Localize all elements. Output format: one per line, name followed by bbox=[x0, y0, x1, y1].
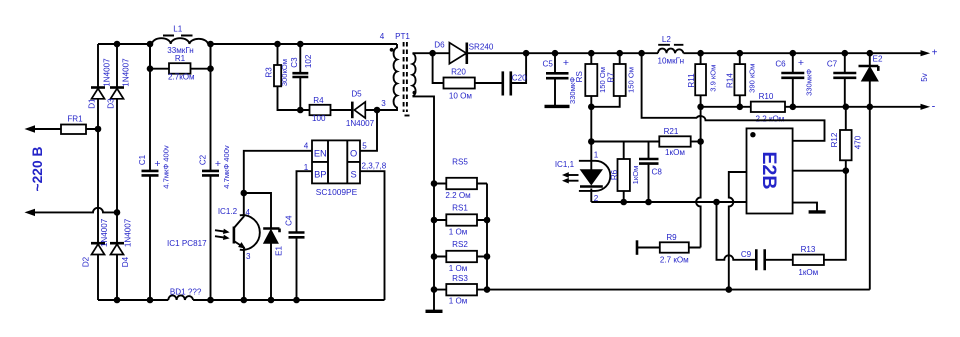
junction C3 top bbox=[297, 41, 304, 48]
capacitor C9 bbox=[741, 249, 793, 270]
wire minus rail to bottom rail bbox=[869, 107, 871, 290]
junction C3-R4 node bbox=[297, 107, 304, 114]
svg-text:2.2 кОм: 2.2 кОм bbox=[755, 114, 784, 123]
junction bottom rail C4 bbox=[293, 297, 300, 304]
svg-text:5: 5 bbox=[362, 142, 367, 151]
svg-text:1N4007: 1N4007 bbox=[122, 58, 131, 87]
svg-text:C7: C7 bbox=[827, 60, 838, 69]
resistor RS3 1 Ом bbox=[446, 274, 477, 306]
svg-text:10 Ом: 10 Ом bbox=[449, 92, 472, 101]
svg-text:C4: C4 bbox=[284, 215, 293, 226]
junction D6 anode snubber bbox=[429, 50, 436, 57]
junction minus rail C7/R12 bbox=[843, 104, 850, 111]
svg-text:D4: D4 bbox=[121, 256, 130, 267]
wire bottom rail primary bbox=[98, 299, 385, 301]
svg-text:IC1.2: IC1.2 bbox=[218, 207, 238, 216]
resistor RS2 1 Ом bbox=[434, 240, 487, 273]
junction RS3 left bbox=[431, 286, 438, 293]
svg-text:R13: R13 bbox=[801, 245, 816, 254]
wire BP pin to C4 bbox=[297, 171, 313, 232]
inductor L2 10мкГн bbox=[658, 35, 685, 66]
junction R11 top bbox=[697, 50, 704, 57]
resistor RS1 1 Ом bbox=[434, 204, 487, 237]
diode D3 1N4007 bbox=[106, 44, 130, 212]
svg-text:RS3: RS3 bbox=[452, 274, 468, 283]
junction R3 top bbox=[274, 41, 281, 48]
svg-text:RS: RS bbox=[575, 70, 584, 82]
wire node C bbox=[591, 201, 746, 203]
wire O pin to D5 node bbox=[360, 110, 377, 151]
svg-text:330мкФ: 330мкФ bbox=[804, 69, 813, 96]
junction L2 tap bbox=[638, 50, 645, 57]
junction minus rail R11 bbox=[697, 104, 704, 111]
diode D5 1N4007 bbox=[346, 90, 397, 129]
svg-text:300кОм: 300кОм bbox=[280, 59, 289, 86]
optocoupler transistor IC1.2 bbox=[167, 193, 260, 300]
svg-text:E1: E1 bbox=[275, 245, 284, 255]
svg-text:SC1009PE: SC1009PE bbox=[316, 187, 358, 197]
svg-text:390 кОм: 390 кОм bbox=[748, 64, 757, 93]
svg-text:1N4007: 1N4007 bbox=[346, 119, 375, 128]
junction R21 right bbox=[697, 138, 704, 145]
svg-text:L1: L1 bbox=[173, 25, 183, 34]
svg-text:4: 4 bbox=[304, 142, 309, 151]
diode D6 SR240 bbox=[434, 41, 658, 65]
junction minus rail R14 bbox=[737, 104, 744, 111]
svg-text:E2B: E2B bbox=[758, 152, 780, 190]
svg-text:1 Ом: 1 Ом bbox=[449, 264, 468, 273]
svg-text:4.7мкФ 400v: 4.7мкФ 400v bbox=[222, 145, 231, 189]
junction bottom rail C2 bbox=[207, 297, 214, 304]
junction node B (LED anode) bbox=[588, 138, 595, 145]
zener E2 bbox=[859, 53, 883, 107]
resistor R1 2.7кОм bbox=[150, 44, 211, 82]
capacitor C4 bbox=[284, 215, 304, 300]
svg-text:R7: R7 bbox=[607, 72, 616, 83]
svg-text:R20: R20 bbox=[451, 68, 466, 77]
resistor R14 390 кОм bbox=[725, 53, 756, 107]
resistor R9 2.7 кОм bbox=[637, 233, 701, 265]
IC E2B ground symbol bbox=[793, 203, 826, 212]
resistor R13 1кОм bbox=[793, 245, 824, 277]
wire RS node to LED anode bbox=[590, 107, 592, 150]
junction E2 bottom / minus rail bbox=[867, 104, 874, 111]
junction node C R6 bbox=[620, 199, 627, 206]
diode D2 1N4007 bbox=[82, 129, 109, 300]
wire top rail left bbox=[98, 43, 152, 45]
svg-text:1кОм: 1кОм bbox=[798, 268, 818, 277]
svg-text:1N4007: 1N4007 bbox=[124, 218, 133, 247]
junction RS2 left bbox=[431, 253, 438, 260]
svg-text:1: 1 bbox=[594, 151, 599, 160]
svg-text:4: 4 bbox=[380, 32, 385, 41]
svg-text:3.9 кОм: 3.9 кОм bbox=[709, 65, 718, 92]
svg-text:C5: C5 bbox=[543, 60, 554, 69]
wire node B to R21 bbox=[591, 141, 659, 143]
svg-text:D1: D1 bbox=[87, 98, 96, 109]
junction R1 left bbox=[147, 65, 154, 72]
inductor L1 33мкГн bbox=[152, 25, 208, 56]
resistor RS5 2.2 Ом bbox=[434, 158, 487, 201]
svg-text:RS5: RS5 bbox=[452, 158, 468, 167]
svg-text:C1: C1 bbox=[138, 154, 147, 165]
fuse FR1 bbox=[61, 115, 86, 135]
capacitor C3 102 bbox=[290, 44, 313, 110]
junction R12 bottom node bbox=[843, 167, 850, 174]
svg-text:1кОм: 1кОм bbox=[665, 148, 685, 157]
junction collector node bbox=[241, 190, 248, 197]
svg-text:C9: C9 bbox=[741, 250, 752, 259]
capacitor C2 4.7мкФ 400v bbox=[198, 44, 230, 300]
svg-text:+: + bbox=[563, 57, 569, 69]
junction C2 top bbox=[207, 41, 214, 48]
junction RS1 right bbox=[484, 217, 491, 224]
svg-text:470: 470 bbox=[854, 135, 863, 149]
svg-text:D5: D5 bbox=[351, 90, 362, 99]
capacitor C5 330мкФ bbox=[543, 53, 578, 105]
svg-text:100: 100 bbox=[312, 114, 326, 123]
svg-text:D3: D3 bbox=[106, 98, 115, 109]
junction RS3 right bbox=[484, 286, 491, 293]
svg-text:FR1: FR1 bbox=[67, 115, 83, 124]
svg-text:~220 В: ~220 В bbox=[30, 147, 45, 192]
svg-text:R1: R1 bbox=[175, 54, 186, 63]
capacitor C6 330мкФ bbox=[775, 53, 813, 107]
svg-text:R21: R21 bbox=[664, 127, 679, 136]
wire node A down to R9 (with hop) bbox=[696, 107, 701, 248]
svg-text:5v: 5v bbox=[920, 72, 929, 82]
junction bottom rail D4 bbox=[114, 297, 121, 304]
wire C9 to node C (with hop) bbox=[717, 202, 757, 260]
junction RS2 right bbox=[484, 253, 491, 260]
svg-text:1N4007: 1N4007 bbox=[103, 58, 112, 87]
junction AC2-bridge bbox=[114, 209, 121, 216]
svg-text:E2: E2 bbox=[873, 55, 883, 64]
snubber resistor R20 10 Ом bbox=[433, 53, 503, 100]
svg-text:RS2: RS2 bbox=[452, 240, 468, 249]
svg-text:1 Ом: 1 Ом bbox=[449, 297, 468, 306]
ground (RS chain) bbox=[426, 310, 443, 313]
junction bottom rail C1 bbox=[147, 297, 154, 304]
junction C5 top bbox=[552, 50, 559, 57]
svg-text:1кОм: 1кОм bbox=[631, 166, 640, 185]
inductor BD1 bbox=[168, 288, 202, 301]
svg-text:+: + bbox=[215, 158, 221, 170]
wire E2B left gnd pin to bottom rail (with hop) bbox=[729, 172, 747, 290]
junction R1 right bbox=[207, 65, 214, 72]
svg-text:R6: R6 bbox=[610, 169, 619, 180]
svg-text:4.7мкФ 400v: 4.7мкФ 400v bbox=[161, 145, 170, 189]
junction minus rail C6 bbox=[790, 104, 797, 111]
snubber capacitor C20 bbox=[503, 53, 527, 95]
resistor R6 1кОм bbox=[610, 142, 640, 203]
svg-text:150 Ом: 150 Ом bbox=[626, 67, 635, 93]
svg-text:PT1: PT1 bbox=[395, 32, 410, 41]
svg-text:R3: R3 bbox=[265, 67, 274, 78]
junction RS1 left bbox=[431, 217, 438, 224]
svg-text:O: O bbox=[350, 149, 357, 159]
svg-text:D2: D2 bbox=[82, 256, 91, 267]
wire RS right bus bbox=[486, 184, 488, 290]
svg-text:C20: C20 bbox=[512, 73, 527, 82]
junction node C C9-branch bbox=[713, 199, 720, 206]
zener E1 bbox=[244, 193, 284, 300]
junction D3 top bbox=[114, 41, 121, 48]
junction E2 top bbox=[867, 50, 874, 57]
svg-text:R14: R14 bbox=[725, 73, 734, 88]
capacitor C1 4.7мкФ 400v bbox=[138, 44, 170, 300]
wire plus rail right bbox=[683, 51, 928, 56]
junction D5-PT1-O node bbox=[374, 107, 381, 114]
svg-text:+: + bbox=[798, 57, 804, 69]
wire secondary bottom to RS chain bbox=[413, 96, 435, 311]
wire minus rail bbox=[701, 104, 929, 109]
svg-text:2.7кОм: 2.7кОм bbox=[168, 73, 195, 82]
svg-text:R4: R4 bbox=[313, 96, 324, 105]
svg-text:2,3,7,8: 2,3,7,8 bbox=[362, 162, 387, 171]
junction bottom rail E1 bbox=[268, 297, 275, 304]
svg-text:D6: D6 bbox=[434, 41, 445, 50]
optocoupler LED IC1,1 bbox=[555, 150, 611, 203]
resistor R21 1кОм bbox=[659, 127, 700, 157]
resistor R7 150 Ом bbox=[591, 53, 635, 107]
junction E2B gnd wire / bottom rail bbox=[726, 286, 733, 293]
svg-text:IC1 PC817: IC1 PC817 bbox=[167, 239, 207, 248]
ground bar (C5) bbox=[545, 105, 570, 108]
svg-text:+: + bbox=[932, 48, 938, 59]
resistor R3 300кОм bbox=[265, 44, 301, 110]
wire E2B right pin to R12 node bbox=[793, 170, 846, 172]
wire S pins to bottom rail bbox=[360, 171, 385, 300]
junction bottom rail emitter bbox=[241, 297, 248, 304]
wire AC input line 2 (with hop) bbox=[26, 208, 117, 216]
svg-text:EN: EN bbox=[314, 149, 327, 159]
IC E2B bbox=[747, 128, 793, 213]
svg-text:102: 102 bbox=[304, 54, 313, 68]
wire secondary top to D6 bbox=[413, 52, 450, 54]
svg-text:2.2 Ом: 2.2 Ом bbox=[445, 191, 470, 200]
svg-text:R11: R11 bbox=[687, 73, 696, 88]
wire AC input line 1 bbox=[26, 126, 98, 132]
resistor R10 2.2 кОм bbox=[751, 92, 785, 123]
svg-text:RS1: RS1 bbox=[452, 204, 468, 213]
diode D4 1N4007 bbox=[110, 212, 133, 300]
transformer PT1 bbox=[377, 32, 416, 116]
svg-text:4: 4 bbox=[246, 208, 251, 217]
wire bottom rail secondary bbox=[434, 289, 870, 291]
svg-text:C8: C8 bbox=[652, 168, 663, 177]
svg-text:IC1,1: IC1,1 bbox=[555, 160, 575, 169]
svg-text:L2: L2 bbox=[662, 35, 672, 44]
junction AC1-bridge bbox=[95, 126, 102, 133]
svg-text:-: - bbox=[932, 101, 936, 113]
svg-text:3: 3 bbox=[381, 99, 386, 108]
wire Vout tap to E2B top pin (with hop) bbox=[642, 53, 825, 141]
junction C1 top bbox=[147, 41, 154, 48]
capacitor C8 bbox=[639, 142, 662, 203]
junction RS/R7 bottom node bbox=[588, 104, 595, 111]
svg-text:BD1 ???: BD1 ??? bbox=[170, 288, 202, 297]
svg-text:1 Ом: 1 Ом bbox=[449, 228, 468, 237]
svg-text:2.7 кОм: 2.7 кОм bbox=[660, 256, 689, 265]
wire top rail to transformer bbox=[208, 43, 397, 45]
wire R12 node down to R13 bbox=[824, 171, 846, 260]
svg-text:R10: R10 bbox=[759, 92, 774, 101]
diode D1 1N4007 bbox=[87, 44, 111, 129]
svg-text:1N4007: 1N4007 bbox=[100, 218, 109, 247]
junction node C C8 bbox=[645, 199, 652, 206]
junction C6 top bbox=[790, 50, 797, 57]
svg-text:S: S bbox=[350, 170, 356, 180]
capacitor C7 bbox=[827, 53, 856, 107]
svg-text:BP: BP bbox=[314, 170, 326, 180]
svg-text:10мкГн: 10мкГн bbox=[658, 57, 685, 66]
svg-text:C6: C6 bbox=[775, 60, 786, 69]
resistor RS 150 Ом bbox=[575, 53, 607, 107]
junction C20 top bbox=[523, 50, 530, 57]
svg-text:C2: C2 bbox=[198, 154, 207, 165]
resistor R4 100 bbox=[300, 96, 352, 123]
svg-text:R12: R12 bbox=[830, 132, 839, 147]
junction R7 top bbox=[616, 50, 623, 57]
svg-text:3: 3 bbox=[246, 252, 251, 261]
junction C7 top bbox=[842, 50, 849, 57]
resistor R12 470 bbox=[830, 107, 863, 171]
wire EN pin to collector node bbox=[244, 151, 312, 193]
junction RS top bbox=[588, 50, 595, 57]
junction RS5 left bbox=[431, 180, 438, 187]
svg-text:R9: R9 bbox=[666, 233, 677, 242]
junction R14 top bbox=[737, 50, 744, 57]
svg-text:+: + bbox=[154, 158, 160, 170]
svg-text:SR240: SR240 bbox=[469, 43, 494, 52]
svg-text:C3: C3 bbox=[290, 57, 299, 68]
resistor R11 3.9 кОм bbox=[687, 53, 718, 107]
IC U2 SC1009PE bbox=[312, 140, 360, 197]
